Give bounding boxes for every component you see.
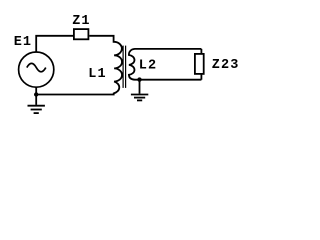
svg-text:L1: L1 bbox=[88, 67, 106, 82]
svg-text:E1: E1 bbox=[14, 35, 32, 50]
svg-text:L2: L2 bbox=[139, 59, 157, 74]
svg-text:Z1: Z1 bbox=[72, 14, 90, 29]
svg-text:Z23: Z23 bbox=[212, 58, 240, 73]
